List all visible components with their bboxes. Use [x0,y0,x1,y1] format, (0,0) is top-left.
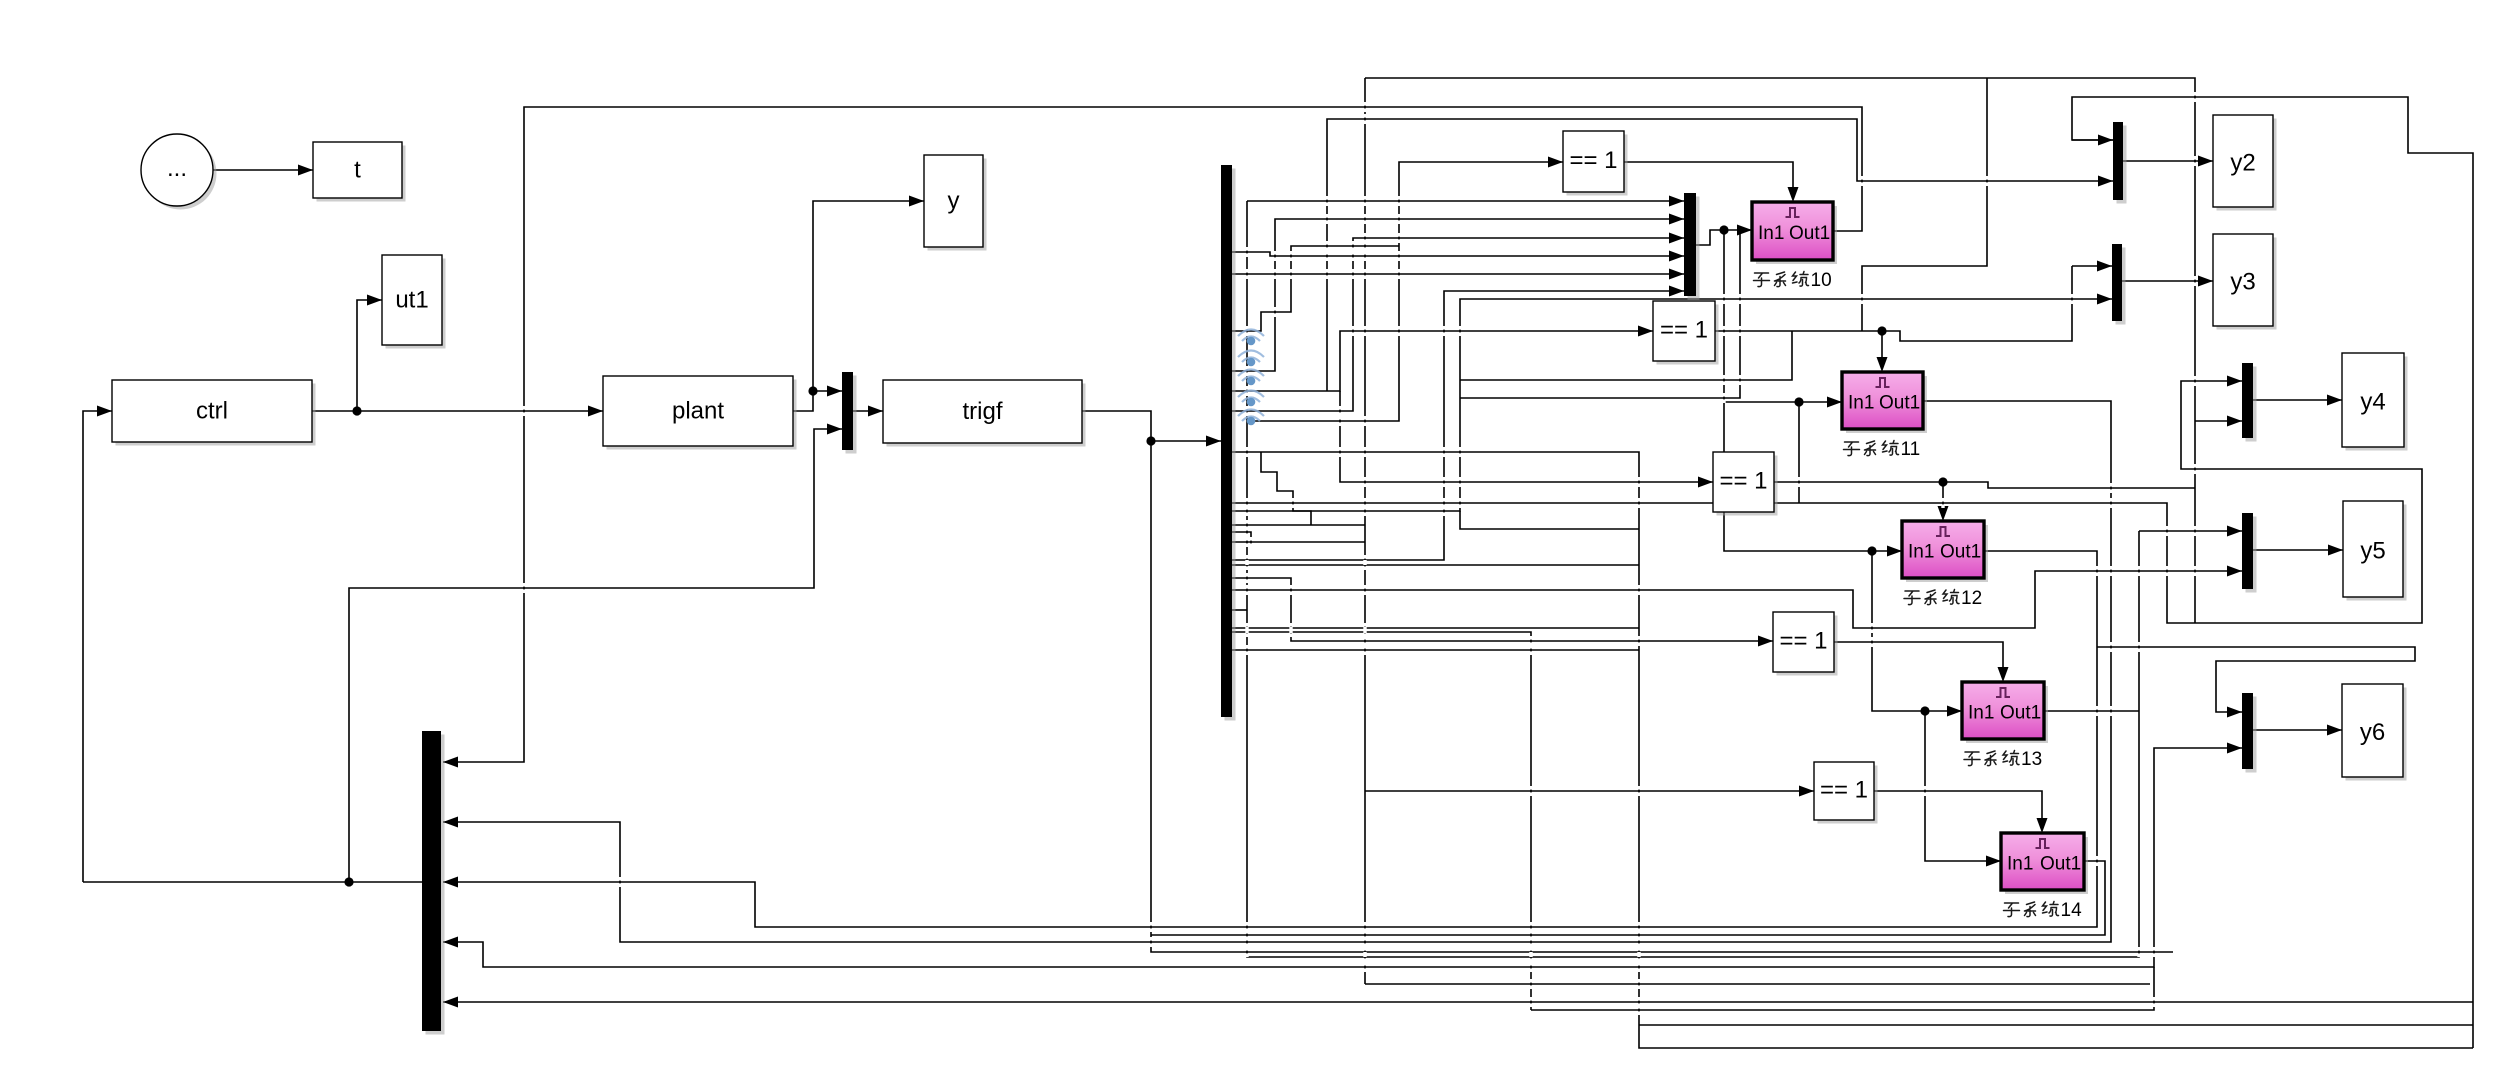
svg-text:y5: y5 [2360,537,2385,564]
mux y3 [2112,244,2126,325]
wire top line y78 loop [1365,78,2195,623]
svg-text:10: 10 [1811,270,1832,291]
svg-text:Out1: Out1 [1879,393,1920,414]
wire demux row411 to muxB in3 [1232,233,1684,412]
source port circle ... [141,134,217,210]
svg-text:== 1: == 1 [1660,317,1708,344]
subsystem 13 [1962,682,2048,743]
subsystem 11 [1842,372,1927,433]
wire branch v1740 [1460,230,1740,398]
block y5 [2343,501,2407,601]
wire staircase below badges [1261,452,1311,525]
wire y4 mux output [2253,395,2342,406]
wire y3 mux output [2122,276,2213,287]
wire y6 mux output [2253,725,2342,736]
svg-text:In1: In1 [1968,703,1994,724]
mux bottom-left (5 inputs) [422,731,445,1035]
wire v2139 bottom bus to demux hug [1247,201,2139,957]
compare block eq1 C [1713,452,1778,516]
wire demux row565 [1232,564,1639,566]
wire eqB branch v1792 [1460,331,1792,380]
wire demux row371 to muxB in2 [1232,214,1684,372]
wire badge row421 to eq A [1247,157,1563,422]
wire line y119 to y2 mux in2 [1327,119,2113,391]
wire S14 output to bottom bus [1151,861,2105,935]
svg-text:== 1: == 1 [1779,628,1827,655]
mux y2 [2113,122,2127,204]
block ut1 [382,255,446,349]
block y6 [2342,684,2407,781]
wire y4 mux in2 stub from p-line [2195,416,2242,427]
svg-text:trigf: trigf [962,398,1002,425]
label subsystem 11 [1844,439,1921,460]
block y4 [2342,353,2408,451]
svg-text:In1: In1 [2007,854,2033,875]
wire y5 mux in1 stub [2139,526,2242,537]
svg-text:ctrl: ctrl [196,397,228,424]
wire S13 output [2044,710,2139,712]
svg-text:Out1: Out1 [1940,542,1981,563]
wire plant output to mux A in1 [793,386,842,412]
wire y2 mux in1 stub [2072,135,2113,146]
svg-text:...: ... [167,155,187,182]
wire branch plant to y [813,196,924,392]
svg-text:plant: plant [672,397,724,424]
wire feedback into ctrl [83,406,112,883]
svg-text:11: 11 [1901,439,1921,460]
mux B (6 inputs) [1684,193,1700,300]
compare block eq1 E [1814,762,1878,824]
compare block eq1 B [1653,301,1719,365]
mux y5 [2242,513,2257,593]
wire y5 mux output [2253,545,2343,556]
label subsystem 12 [1904,588,1982,609]
wire muxB in1 line from hug vertical [1247,196,1684,207]
wire demux row to muxB in4 with jog [1232,251,1684,262]
wire demux row542 and v1365 to eq E [1232,78,1814,984]
block plant [603,376,797,450]
label subsystem 14 [2004,900,2083,921]
compare block eq1 A [1563,131,1628,196]
wire eq E output to S14 trigger [1874,791,2048,833]
wire bottom mux output [83,881,422,883]
svg-text:In1: In1 [1908,542,1934,563]
block ctrl [112,380,316,446]
wire S11 branch drop [1798,402,1800,503]
wire demux row5 to muxB in5 [1232,269,1684,280]
block trigf [883,380,1086,447]
wire eq B output loop [1715,266,2072,341]
svg-text:y6: y6 [2360,719,2385,746]
subsystem 10 [1752,202,1837,264]
wire demux row391 to eq B [1232,326,1653,392]
wire y3 mux in1 from v2072 [2072,261,2112,272]
wire S12 trigger drop [1938,482,1949,521]
wire circle to t [213,165,313,176]
wire demux row650 [1232,649,1639,651]
label subsystem 13 [1964,749,2042,770]
wire demux row511 to y3 mux in2 [1232,294,2112,512]
svg-text:== 1: == 1 [1820,777,1868,804]
wire demux row590 chain to y5 in2 [1232,566,2242,629]
mux y4 [2242,363,2257,442]
mux A (plant/feedback) [842,372,857,454]
wire bottom line 1025 [1639,1024,2473,1026]
wire demux row628 [1232,627,1639,629]
svg-text:Out1: Out1 [2000,703,2041,724]
svg-text:14: 14 [2061,900,2083,921]
svg-text:13: 13 [2021,749,2042,770]
wire demux row610 stub [1232,609,1247,611]
wire feedback to mux A in2 [349,424,842,883]
wire bottom line 1010 [1531,967,2154,1010]
wire trigf output to demux [1082,411,1221,447]
wire S11 output to bottom mux in2 [443,401,2111,942]
wire eq A output to S10 trigger [1624,162,1799,202]
wire cascade S12 to S13 [1872,551,1962,717]
subsystem 14 [2001,833,2088,894]
block y2 [2213,115,2277,211]
block t [313,142,406,202]
wire bottom line 984 [1365,983,2150,985]
svg-text:== 1: == 1 [1719,468,1767,495]
wire mux B output to S10 [1696,225,1752,246]
svg-text:y2: y2 [2230,149,2255,176]
wire eq C output loop [1774,482,2195,488]
demux main [1221,165,1236,721]
wire demux row578 to eq D [1232,578,1773,647]
svg-text:ut1: ut1 [395,286,428,313]
svg-text:== 1: == 1 [1569,147,1617,174]
block y3 [2213,234,2277,330]
wire demux row331 staircase [1232,246,1399,331]
compare block eq1 D [1773,612,1838,676]
svg-text:y3: y3 [2230,268,2255,295]
wire feedback loop right side [2072,97,2473,1048]
block y [924,155,987,251]
wire row532 stub [1232,532,1251,545]
label subsystem 10 [1754,270,1832,291]
svg-text:In1: In1 [1848,393,1874,414]
wire y3 in1 s-link [1862,78,1987,331]
wire demux row525 [1232,524,1365,526]
wire mux A output to trigf [853,406,883,417]
wire pair 647-661 to y6 mux in1 [2097,647,2415,718]
wire S12 output down to bottom mux in3 [443,551,2097,927]
wire demux row503 chain to y4 in1 [1232,376,2422,624]
wire cascade down to S12 [1724,230,1902,557]
wire S11 trigger drop [1877,331,1888,372]
wire ctrl output to plant [312,406,603,417]
svg-text:Out1: Out1 [2040,854,2081,875]
wire demux row452 long [1232,452,2473,1048]
subsystem 12 [1902,521,1988,582]
svg-text:Out1: Out1 [1789,223,1830,244]
mux y6 [2242,693,2257,773]
wire eq D output to S13 trigger [1834,642,2009,682]
wire bottom mux in5 line [443,997,2473,1008]
wire crossing hops [522,92,2196,1015]
wire trigf branch down to bottom bus [1151,441,2173,952]
wire v1340 down to eq C [1340,391,1713,488]
svg-text:12: 12 [1961,588,1982,609]
svg-text:y: y [948,187,960,214]
wire branch to S11 [1724,397,1842,408]
svg-text:y4: y4 [2360,388,2385,415]
wire cascade S13 to S14 [1925,711,2001,867]
wire demux row632 to v1531 [1232,632,1531,1010]
svg-text:In1: In1 [1758,223,1784,244]
wire demux row to muxB in6 [1232,286,1684,561]
wire bottom line to mux in4 and y6 in2 [443,743,2242,968]
blue signal badges [1238,330,1264,426]
wire S10 output loop to bottom mux in1 [443,107,1862,768]
wire row529 link [1460,511,1639,529]
svg-text:t: t [354,156,361,183]
wire branch ctrl to ut1 [357,295,382,412]
wire y2 mux output [2123,156,2213,167]
